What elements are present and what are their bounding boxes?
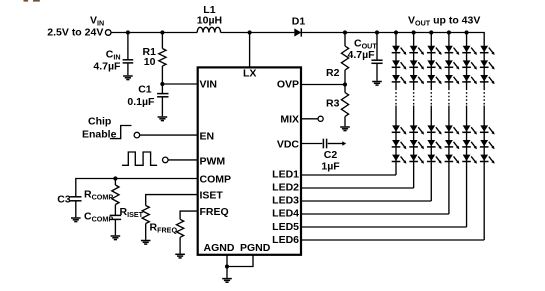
diode D1 — [294, 28, 301, 36]
ground for AGND/PGND — [222, 279, 232, 283]
svg-text:RCOMP: RCOMP — [84, 189, 113, 202]
wire to PWM pin — [168, 159, 197, 161]
resistor RFREQ — [177, 219, 184, 237]
svg-text:D1: D1 — [292, 16, 306, 28]
LED string column 3 (to LED3) — [301, 30, 442, 201]
inductor L1 coil — [197, 27, 220, 32]
svg-text:4.7µF: 4.7µF — [93, 60, 121, 72]
resistor R1 — [161, 33, 163, 49]
resistor RCOMP — [114, 179, 116, 186]
svg-text:4.7µF: 4.7µF — [348, 49, 376, 61]
ground for COUT — [372, 82, 382, 86]
svg-text:2.5V to 24V: 2.5V to 24V — [47, 27, 103, 39]
PWM square wave symbol — [122, 152, 157, 165]
wire to CIN — [127, 33, 129, 60]
input terminal circle — [105, 30, 111, 36]
wire to VIN pin — [162, 83, 197, 85]
capacitor C1 — [161, 84, 163, 94]
wire COMP net — [76, 179, 197, 197]
capacitor CCOMP — [110, 214, 121, 216]
ground for C1 — [158, 117, 168, 121]
wire VDC arrow — [328, 143, 343, 145]
LED string column 5 (to LED5) — [301, 30, 477, 227]
wire VDC stub — [301, 143, 322, 145]
PWM terminal circle — [163, 157, 169, 163]
node: LX junction — [248, 30, 252, 34]
capacitor CIN — [123, 59, 134, 61]
svg-text:Chip: Chip — [88, 116, 111, 128]
svg-text:LX: LX — [243, 67, 256, 79]
svg-text:VOUT up to 43V: VOUT up to 43V — [408, 15, 480, 28]
svg-text:LED2: LED2 — [272, 182, 299, 194]
capacitor C2 — [322, 139, 324, 149]
wire ISET net — [146, 195, 197, 206]
svg-text:VDC: VDC — [277, 139, 300, 151]
svg-text:10µH: 10µH — [197, 15, 222, 27]
svg-text:R2: R2 — [326, 67, 340, 79]
svg-text:PWM: PWM — [200, 156, 226, 168]
node: COUT junction — [375, 30, 379, 34]
ground for C3 — [71, 218, 81, 222]
svg-text:ISET: ISET — [200, 190, 224, 202]
svg-text:LED4: LED4 — [272, 208, 299, 220]
svg-text:EN: EN — [200, 131, 215, 143]
wire to EN pin — [140, 134, 197, 136]
svg-text:C1: C1 — [138, 83, 152, 95]
LED string column 2 (to LED2) — [301, 30, 424, 188]
node: COMP junction — [113, 176, 117, 180]
svg-text:PGND: PGND — [240, 242, 271, 254]
wire OVP to divider — [301, 84, 345, 86]
wire: top rail from D1 to LED string 6 corner — [301, 33, 484, 46]
capacitor COUT — [376, 33, 378, 61]
svg-text:C2: C2 — [324, 149, 338, 161]
svg-text:LED6: LED6 — [272, 234, 299, 246]
svg-text:OVP: OVP — [277, 79, 299, 91]
resistor RISET — [142, 206, 149, 224]
svg-text:RFREQ: RFREQ — [150, 222, 178, 235]
svg-text:AGND: AGND — [204, 242, 235, 254]
svg-text:LED1: LED1 — [272, 169, 299, 181]
node: CIN junction — [126, 30, 130, 34]
capacitor C3 — [70, 196, 81, 198]
wire AGND stub — [226, 255, 228, 267]
svg-text:LED5: LED5 — [272, 221, 299, 233]
wire MIX stub — [301, 118, 318, 120]
wire PGND stub — [227, 255, 253, 267]
svg-text:COMP: COMP — [200, 173, 232, 185]
IC U1 body — [198, 67, 301, 254]
svg-text:CCOMP: CCOMP — [84, 211, 113, 224]
LED string column 4 (to LED4) — [301, 30, 459, 214]
svg-text:FREQ: FREQ — [200, 206, 229, 218]
svg-text:0.1µF: 0.1µF — [127, 96, 155, 108]
wire LX stub — [249, 33, 251, 67]
ground for RFREQ — [175, 254, 185, 258]
LED string column 1 (to LED1) — [301, 30, 406, 175]
MIX terminal circle — [318, 116, 323, 121]
svg-text:MIX: MIX — [280, 114, 299, 126]
chip enable step symbol — [110, 126, 132, 139]
node: OVP junction — [343, 82, 347, 86]
svg-text:Enable: Enable — [82, 129, 117, 141]
resistor R3 — [344, 85, 346, 93]
node: ground junction — [225, 264, 229, 268]
svg-text:R3: R3 — [326, 98, 340, 110]
svg-text:1µF: 1µF — [321, 161, 340, 173]
svg-text:C3: C3 — [57, 194, 71, 206]
svg-text:VIN: VIN — [200, 79, 218, 91]
node: R2 junction on rail — [343, 30, 347, 34]
wire FREQ net — [180, 211, 197, 219]
EN terminal circle — [134, 132, 140, 138]
wire: top rail from L1 to D1 — [221, 32, 295, 34]
svg-text:RISET: RISET — [120, 206, 144, 219]
node: R1 junction — [160, 30, 164, 34]
wire: top rail from terminal to L1 — [111, 32, 197, 34]
LED string column 6 (to LED6) — [301, 46, 495, 240]
ground for RISET — [141, 241, 151, 245]
stray colored text fragment top edge — [24, 0, 29, 2]
ground for R3 — [340, 127, 350, 131]
svg-text:10: 10 — [144, 56, 156, 68]
node: R1/C1/VIN junction — [160, 82, 164, 86]
svg-text:LED3: LED3 — [272, 195, 299, 207]
resistor R2 — [344, 33, 346, 47]
ground for CIN — [123, 76, 133, 80]
ground for CCOMP — [111, 236, 121, 240]
